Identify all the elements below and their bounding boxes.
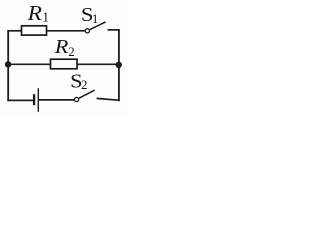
- node junction left: [5, 61, 11, 67]
- svg-text:1: 1: [92, 11, 99, 26]
- svg-text:1: 1: [42, 10, 49, 25]
- resistor R1: [22, 26, 47, 35]
- switch S1 pivot: [85, 29, 89, 33]
- wire right vertical: [118, 29, 120, 101]
- svg-text:R: R: [27, 1, 43, 25]
- wire S1 to top-right corner: [108, 29, 120, 31]
- resistor R2: [51, 59, 78, 69]
- wire left vertical: [7, 30, 9, 101]
- wire R1 to S1: [47, 30, 86, 32]
- battery positive plate (long): [37, 88, 39, 112]
- node junction right: [116, 62, 122, 68]
- wire middle right segment: [77, 63, 119, 65]
- switch S2 blade: [79, 90, 95, 98]
- wire S2 to bottom-right corner: [97, 98, 120, 100]
- wire bottom-left segment: [7, 99, 33, 101]
- switch S1 blade: [90, 22, 106, 30]
- battery negative plate (short): [33, 94, 35, 105]
- svg-text:2: 2: [81, 77, 88, 92]
- wire middle left segment: [8, 63, 51, 65]
- wire battery to S2: [39, 99, 75, 101]
- svg-text:2: 2: [68, 44, 75, 59]
- switch S2 pivot: [75, 97, 79, 101]
- svg-text:R: R: [54, 36, 69, 58]
- wire top-left segment: [7, 30, 21, 32]
